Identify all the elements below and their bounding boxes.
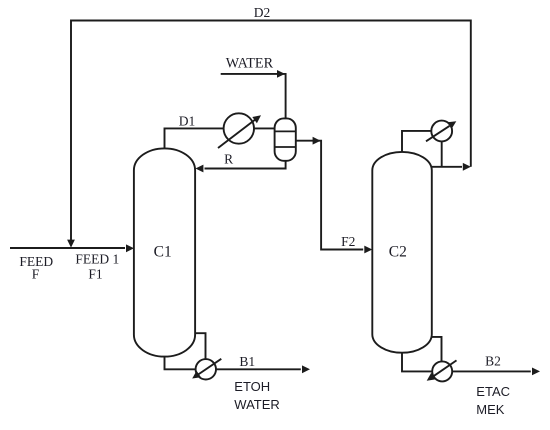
svg-text:R: R — [224, 152, 233, 167]
svg-text:C2: C2 — [389, 244, 407, 261]
svg-text:ETOH: ETOH — [234, 379, 270, 394]
svg-text:MEK: MEK — [476, 402, 505, 417]
svg-text:FEED 1: FEED 1 — [75, 251, 119, 266]
svg-text:WATER: WATER — [234, 397, 279, 412]
svg-text:WATER: WATER — [226, 56, 274, 72]
svg-text:D2: D2 — [254, 5, 271, 20]
svg-text:B2: B2 — [485, 354, 501, 369]
svg-text:B1: B1 — [239, 354, 255, 369]
svg-text:F2: F2 — [341, 234, 355, 249]
svg-text:F1: F1 — [88, 267, 102, 282]
svg-text:C1: C1 — [154, 244, 172, 261]
svg-text:F: F — [32, 267, 40, 282]
svg-text:D1: D1 — [179, 113, 196, 128]
svg-text:ETAC: ETAC — [476, 384, 510, 399]
